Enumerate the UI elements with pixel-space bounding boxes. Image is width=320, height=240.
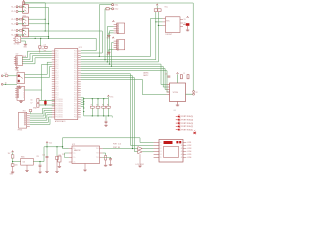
svg-text:C11: C11 [36,156,39,158]
svg-text:P2.6: P2.6 [56,64,59,66]
LCD contrast pads [176,141,178,143]
svg-text:X2: X2 [196,92,198,94]
svg-text:IC2: IC2 [72,144,75,146]
connector pin X3-2 top [112,8,114,10]
VCC arrow main rail [46,142,48,143]
optocoupler OK3 [23,28,29,37]
svg-text:P2.0: P2.0 [74,103,77,105]
svg-text:P3.7: P3.7 [56,66,59,68]
svg-text:X3-2: X3-2 [115,9,119,11]
svg-text:P0.2: P0.2 [74,73,77,75]
wire IC7 out4 [22,58,52,64]
capacitor C9 [105,116,107,121]
svg-text:P3.5: P3.5 [74,114,77,116]
svg-text:P2.6: P2.6 [56,81,59,83]
svg-text:PORT ROD(3): PORT ROD(3) [181,123,193,125]
svg-text:P2.4: P2.4 [74,77,77,79]
capacitor C12 [46,147,48,156]
wire SV1-2 to MCU [30,110,52,116]
long net vertical to upper area [41,90,43,100]
svg-text:X1-1: X1-1 [11,7,15,9]
wire bus MCU to CAN pin1 [81,64,167,84]
wire rail to IC2 pin1 [63,147,69,149]
svg-text:P3.5: P3.5 [74,79,77,81]
svg-text:P2.0: P2.0 [74,68,77,70]
svg-text:X1: X1 [184,19,186,21]
svg-text:P0.0: P0.0 [56,51,59,53]
capacitor C8 [168,76,171,77]
resistor R-OK3 [20,30,23,32]
svg-text:D0: D0 [160,142,162,144]
wire MCU pins to vertical collector [83,98,85,116]
VCC arrow at pull-up rail [108,95,110,96]
svg-text:PORT ROD(4): PORT ROD(4) [181,120,193,122]
IC1 pin name text left column [56,51,63,119]
svg-text:P1.5: P1.5 [56,97,59,99]
svg-text:P2.0: P2.0 [74,86,77,88]
svg-text:K1: K1 [17,71,19,73]
wire XTAL1 [39,99,55,101]
ground under SV3 [109,50,114,52]
resistor R8 at SV1 [29,110,32,112]
wire IC8 out2 [25,67,52,78]
svg-text:R1: R1 [91,104,93,106]
svg-text:P3.1: P3.1 [74,88,77,90]
svg-text:P1.3: P1.3 [74,57,77,59]
IC1 left pin stubs [52,51,55,117]
svg-text:P3.1: P3.1 [74,70,77,72]
svg-text:C6: C6 [30,100,32,102]
VCC arrow at SV2 [113,21,115,22]
svg-text:P0.6: P0.6 [74,99,77,101]
wire OK3 output b [28,36,48,38]
svg-text:DS1307: DS1307 [166,34,173,36]
svg-text:OK1: OK1 [22,3,25,5]
ground under IC6 [26,165,28,170]
connector SV3 box [117,40,125,50]
svg-text:D5: D5 [160,157,162,159]
diode D3 [106,8,109,10]
IC4 pins left [167,85,170,95]
capacitor C14 polarized [65,152,69,154]
svg-text:P2.4: P2.4 [74,95,77,97]
svg-text:P3.2/RXD0: P3.2/RXD0 [56,108,63,110]
svg-text:P1.1: P1.1 [56,53,59,55]
svg-text:P1.7: P1.7 [74,101,77,103]
box1 pins left [13,38,15,40]
svg-text:AT89C51AC3: AT89C51AC3 [55,120,65,123]
diode D1 above C10 [11,155,14,158]
svg-text:P3.7: P3.7 [56,84,59,86]
voltage regulator IC6 body [21,158,34,165]
power pull-up for OK1: VCC arrow and resistor R1 [23,0,25,1]
svg-text:P2.2: P2.2 [56,73,59,75]
svg-text:R3: R3 [102,104,104,106]
svg-text:P3.5: P3.5 [74,62,77,64]
junction dots on collector [83,98,84,99]
crystal Q1 filled [44,101,46,105]
connector pin X5-2 [1,83,3,85]
svg-text:P2.2: P2.2 [56,90,59,92]
capacitor C15 [110,157,112,158]
wire IC4 CANH out [186,93,193,95]
wire OK2 output b [28,23,48,25]
svg-text:P2.4: P2.4 [74,112,77,114]
ground under Q2 [187,26,189,30]
LCD module LCD1 body [159,140,183,163]
VCC arrow at SV3 [112,37,114,38]
IC5 pins left [163,18,166,25]
IC7 pins left [14,58,16,64]
wire IC7 out1 [22,51,52,57]
capacitor C6 [37,99,39,103]
ground under SV2 [109,33,114,35]
svg-text:P0.0: P0.0 [56,86,59,88]
wire bus MCU to CAN pin4 [81,71,170,92]
wire SV2 pin down to bus b [110,31,114,64]
svg-text:P1.1: P1.1 [56,70,59,72]
svg-text:C0+: C0+ [73,148,76,150]
wire MCU to LCD data1 [81,74,154,146]
wire bus MCU to RTC pullup R6 [81,12,159,62]
svg-text:PORT_RS: PORT_RS [113,147,120,149]
svg-text:P3.1: P3.1 [74,106,77,108]
svg-text:R4: R4 [107,104,109,106]
svg-text:LCD5: LCD5 [187,154,191,156]
svg-text:IC7: IC7 [16,54,19,56]
svg-text:IC9: IC9 [17,86,20,88]
resistor R6 [158,9,161,12]
wire IC2 out2 to R12 [103,153,106,156]
diode D2 [5,75,8,77]
resistor R-OK2 [20,18,23,20]
svg-text:100n: 100n [15,164,18,166]
svg-text:LCD4: LCD4 [187,151,191,153]
svg-text:P3.5: P3.5 [74,97,77,99]
IC1 pin name text right column [74,51,77,119]
svg-text:X1-2: X1-2 [11,11,15,13]
RTC IC5 body [166,17,181,33]
wire IC8 out1 [25,62,52,74]
LCD backlight filled bar [164,141,173,144]
wire SV1-1 to MCU [30,108,52,114]
svg-text:C12: C12 [42,155,45,157]
VCC at Q2 [187,17,189,18]
buffer Q3 upper [138,147,142,151]
svg-text:LCD6: LCD6 [187,157,191,159]
wire MCU to CAN pin5 lower [81,79,167,94]
svg-text:TLP181: TLP181 [14,44,20,46]
wire net A across top of MCU to connector bus [45,31,102,53]
svg-text:X3-1: X3-1 [115,5,119,7]
LED LED5 [176,129,178,131]
wire MCU to LCD data2 [81,76,138,149]
svg-text:P1.3: P1.3 [74,92,77,94]
svg-text:D4: D4 [160,154,162,156]
IC2 pins left [69,149,72,163]
resistor R11 [187,75,189,79]
resistor R1 [90,106,94,108]
svg-text:P0.0: P0.0 [56,68,59,70]
svg-text:P2.2: P2.2 [56,55,59,57]
wire SV1-6 [30,119,50,124]
svg-text:R9: R9 [44,51,46,53]
svg-text:P1.5: P1.5 [56,79,59,81]
wire X3-2 down to bus [110,8,112,10]
resistor R4 [107,106,111,108]
IC2 pins right [100,149,103,158]
svg-text:P0.6: P0.6 [74,81,77,83]
connector SV2 box [117,23,125,33]
VCC arrow RTC pullups [156,4,158,5]
optocoupler OK2 [23,17,29,26]
svg-text:C1+: C1+ [73,153,76,155]
svg-text:LCD1: LCD1 [187,142,191,144]
svg-text:P3.1: P3.1 [74,53,77,55]
resistor R10 [180,75,182,79]
svg-text:X1-2: X1-2 [11,24,15,26]
svg-text:VP230: VP230 [173,92,178,94]
pull-up top rail [84,98,109,100]
svg-text:12V: 12V [8,153,11,155]
svg-text:C8: C8 [165,74,167,76]
IC7 driver box [16,56,22,66]
svg-text:OK4: OK4 [15,35,19,37]
power input arrow 12V [12,151,14,152]
svg-text:P1.3: P1.3 [74,110,77,112]
buffer Q4 lower [138,150,142,154]
svg-text:OK3: OK3 [22,27,25,29]
svg-text:P0.4: P0.4 [56,59,59,61]
LCD1 pins left [154,143,159,158]
LED LED4 [176,125,178,127]
wire bus MCU SCL to RTC pullup R5 [81,12,156,60]
svg-text:P3.4/RXD0: P3.4/RXD0 [56,112,63,114]
connector pin X5-1 [1,75,3,77]
connector SV1 box [19,112,27,128]
wire SV2 pin down to bus a [107,27,113,62]
svg-text:PORT_LCD: PORT_LCD [113,144,122,146]
resistor R2 [96,106,100,108]
svg-text:P3.3: P3.3 [56,57,59,59]
wire SV3 pin down to bus c [112,43,114,67]
wire IC2 out3 to C15 [103,157,111,160]
wire reg out up to rail [43,147,45,162]
svg-text:PORT ROD(1): PORT ROD(1) [181,129,193,131]
reset capacitor C5 [40,38,42,45]
svg-text:IC1: IC1 [79,47,82,49]
wire regulator output [33,161,44,163]
optocoupler OK1 [23,5,29,14]
VCC arrow IC4 [177,73,179,74]
svg-text:OK2: OK2 [22,15,25,17]
LCD screen inner box [164,146,179,157]
svg-text:P0.4: P0.4 [56,77,59,79]
LCD1 pins right with net labels [183,143,186,158]
svg-text:P0.2: P0.2 [74,55,77,57]
microcontroller IC1 body [55,49,78,120]
svg-text:P2.0: P2.0 [74,51,77,53]
svg-text:C2+: C2+ [73,157,76,159]
svg-text:P1.7: P1.7 [74,66,77,68]
optocoupler OK4 box1 [15,36,21,42]
svg-text:P3.3/RXD0: P3.3/RXD0 [56,110,63,112]
svg-text:C3+: C3+ [73,162,76,164]
wire MCU to LCD data3 [81,78,138,152]
svg-text:C7: C7 [30,102,32,104]
wire OK2 output a [28,18,45,20]
svg-text:PORT ROD(5): PORT ROD(5) [181,116,193,118]
resistor R12 right of IC2 [105,156,107,161]
connector X2 CAN [193,91,195,93]
resistor R3 [102,106,106,108]
svg-text:P0.2: P0.2 [74,108,77,110]
svg-text:P3.1/RXD0: P3.1/RXD0 [56,106,63,108]
svg-text:D3: D3 [160,151,162,153]
wire box1 to net B [21,37,49,39]
wire bus MCU to CAN pin2 [81,66,167,87]
wire OK3 output a [28,30,45,32]
wire SV1-4 to MCU [30,115,52,120]
svg-text:C5: C5 [44,44,46,46]
svg-text:LCD 16X2: LCD 16X2 [136,164,144,166]
IC8 driver box [17,73,25,84]
svg-text:X1-1: X1-1 [11,19,15,21]
LED D5 corner [194,130,196,134]
wire XTAL2 [39,104,55,106]
wire main 5V rail [44,138,154,147]
svg-text:SV1: SV1 [23,111,26,113]
svg-text:LCD2: LCD2 [187,145,191,147]
resistor R5 [154,9,157,12]
svg-text:P3.3: P3.3 [56,75,59,77]
svg-text:P1.7: P1.7 [74,84,77,86]
IC9 pins left [15,88,17,97]
capacitor C11 [39,161,40,162]
crystal Q2 for RTC [186,23,190,26]
wire IC9 out [25,64,52,90]
svg-text:P0.6: P0.6 [74,64,77,66]
IC9 driver box [17,86,25,100]
capacitor C7 [37,103,39,107]
wire net B across top of MCU [49,38,97,50]
wire IC7 out2 [22,53,52,59]
svg-text:P0.2: P0.2 [74,90,77,92]
svg-text:P3.3: P3.3 [56,92,59,94]
wire IC2 out1 joins LCD RS line [103,148,133,150]
wire X3-1 down to bus [99,5,111,57]
wire SV1-5 to MCU [30,117,52,122]
LCD1 inner pin names [160,142,162,159]
wire IC2 left pin3 [65,153,69,158]
svg-text:P3.6/RXD0: P3.6/RXD0 [56,99,63,101]
ground wire IC2 [84,164,86,170]
svg-text:P3.0/RXD0: P3.0/RXD0 [56,103,63,105]
svg-text:P3.7/RXD0: P3.7/RXD0 [56,101,63,103]
IC5 pins right [180,19,183,26]
svg-text:P1.1: P1.1 [56,88,59,90]
svg-text:LCD3: LCD3 [187,148,191,150]
svg-text:P0.4: P0.4 [56,95,59,97]
svg-text:P3.5/RXD0: P3.5/RXD0 [56,114,63,116]
ground under IC9 [20,99,22,102]
ground under Q3 [139,154,141,165]
svg-text:PORT ROD(2): PORT ROD(2) [181,126,193,128]
IC1 right pin stubs [78,51,81,117]
wire R6 junction to RTC pin3 [158,24,162,26]
CAN transceiver IC4 body [170,83,186,102]
svg-text:D2: D2 [160,148,162,150]
svg-text:P3.6/RXD0: P3.6/RXD0 [56,117,63,119]
svg-text:IC6: IC6 [23,162,26,164]
LED LED2 [176,119,178,121]
wires through pull-ups [92,99,108,116]
svg-text:P1.3: P1.3 [74,75,77,77]
LED LED1 [176,116,178,118]
svg-text:R2: R2 [97,104,99,106]
svg-text:X1-1: X1-1 [11,30,15,32]
wire bus MCU SDA to RTC pin1 [81,18,163,56]
svg-text:C5: C5 [42,46,44,48]
svg-text:GND: GND [10,174,13,175]
wire R5 junction to RTC pin2 [156,21,163,23]
wire net opto bus vertical B [48,7,50,38]
svg-text:7805: 7805 [21,156,25,158]
connector pin X3-1 top [112,4,114,6]
ground under IC4 [177,102,179,105]
wire OK1 output [28,6,48,8]
ground at box1 output [21,41,26,44]
wire SV1-3 to MCU [30,113,52,119]
wire IC7 out3 [22,56,52,62]
IC2 body [72,146,100,164]
LED LED3 [176,122,178,124]
capacitor C10 polarized [12,161,13,162]
wire long top rail to CAN connector [25,3,194,92]
svg-text:D2: D2 [5,73,7,75]
svg-text:D1: D1 [160,145,162,147]
svg-text:P1.5: P1.5 [56,62,59,64]
ground under IC8 [19,86,21,88]
svg-text:P0.6: P0.6 [74,117,77,119]
wire bus rail end [111,116,113,118]
wire net opto bus vertical A [25,2,46,4]
svg-text:P2.4: P2.4 [74,59,77,61]
capacitor C13 [56,147,58,157]
capacitor C5 reset [45,46,48,48]
resistor R-OK1 [20,6,23,8]
wire power in [12,158,14,161]
pull-up bottom rail [84,115,113,117]
wire bus MCU to CAN pin3 [81,69,167,90]
